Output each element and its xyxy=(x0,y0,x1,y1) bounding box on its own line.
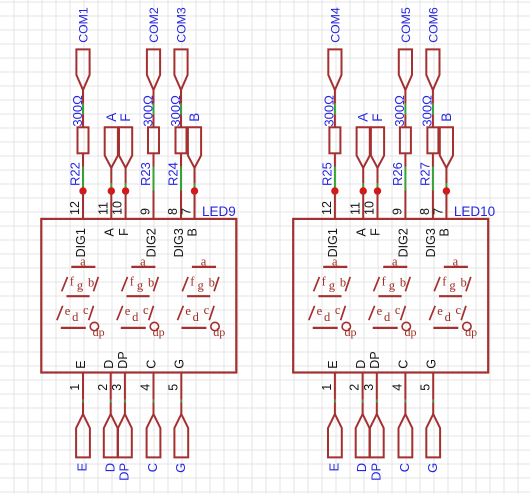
pin of terminal B' xyxy=(445,167,447,183)
display pin G lead xyxy=(180,373,182,400)
off-page terminal F' xyxy=(371,127,384,168)
svg-text:DP: DP xyxy=(368,351,382,368)
terminal label D' xyxy=(354,463,369,472)
terminal label COM4 xyxy=(328,7,342,43)
svg-text:COM4: COM4 xyxy=(328,7,342,43)
svg-text:7: 7 xyxy=(432,208,446,215)
off-page terminal COM3 xyxy=(174,49,187,90)
terminal label DP' xyxy=(368,463,383,481)
wire to terminal E xyxy=(82,400,84,403)
pin name F of LED10 xyxy=(369,228,383,236)
pin number 2 of LED10 xyxy=(348,384,362,391)
refdes label R27 xyxy=(418,162,433,186)
svg-text:R27: R27 xyxy=(418,162,433,186)
pin of terminal COM6 xyxy=(432,89,434,104)
svg-text:DIG1: DIG1 xyxy=(74,228,88,257)
display pin D lead xyxy=(110,373,112,400)
off-page terminal D xyxy=(104,414,118,457)
svg-text:F: F xyxy=(370,114,385,122)
off-page terminal E' xyxy=(328,414,342,457)
pin name DIG2 of LED10 xyxy=(397,228,411,257)
off-page terminal E xyxy=(76,414,90,457)
svg-text:A: A xyxy=(354,228,368,237)
resistor R26 body xyxy=(400,127,411,153)
display pin 7 lead xyxy=(194,191,196,220)
pin number 12 of LED9 xyxy=(68,201,82,215)
terminal label COM2 xyxy=(147,7,161,43)
pin of terminal DP' xyxy=(376,402,378,415)
pin name F of LED9 xyxy=(117,228,131,236)
svg-text:F: F xyxy=(118,114,133,122)
pin of terminal D xyxy=(110,402,112,415)
pin of terminal COM2 xyxy=(153,89,155,104)
off-page terminal C' xyxy=(399,414,413,457)
refdes label R26 xyxy=(390,162,405,186)
svg-text:1: 1 xyxy=(320,384,334,391)
refdes label R24 xyxy=(166,162,181,186)
resistor R22 body xyxy=(78,127,89,153)
svg-text:F: F xyxy=(369,228,383,236)
pin of terminal G' xyxy=(432,402,434,415)
wire R22 to display pin 12 xyxy=(82,167,84,192)
pin number 3 of LED10 xyxy=(362,384,376,391)
svg-text:F: F xyxy=(117,228,131,236)
pin of terminal C' xyxy=(404,402,406,415)
svg-text:D: D xyxy=(354,360,368,369)
pin number 9 of LED9 xyxy=(139,208,153,215)
pin name DP of LED9 xyxy=(116,351,130,368)
wire to terminal C xyxy=(153,400,155,403)
pin name DIG3 of LED9 xyxy=(172,228,186,257)
value label 300&#937; of R24 xyxy=(168,95,183,127)
display pin DP lead xyxy=(376,373,378,400)
terminal label E' xyxy=(327,462,342,471)
junction at display pin 7 xyxy=(443,187,450,194)
svg-text:DIG3: DIG3 xyxy=(424,228,438,257)
pin of terminal G xyxy=(180,402,182,415)
pin 1 of resistor R26 xyxy=(404,114,406,128)
wire COM5 to R26 xyxy=(404,104,406,115)
display pin DP lead xyxy=(124,373,126,400)
off-page terminal COM6 xyxy=(426,49,439,90)
svg-text:COM2: COM2 xyxy=(147,7,161,43)
svg-text:DP: DP xyxy=(116,351,130,368)
wire R27 to display pin 8 xyxy=(432,167,434,191)
pin of terminal D' xyxy=(362,402,364,415)
terminal label A xyxy=(104,113,119,122)
pin number 10 of LED9 xyxy=(111,201,125,215)
terminal label COM1 xyxy=(76,7,90,43)
svg-text:DIG1: DIG1 xyxy=(326,228,340,257)
svg-text:8: 8 xyxy=(418,208,432,215)
svg-text:2: 2 xyxy=(348,384,362,391)
pin 1 of resistor R27 xyxy=(432,114,434,128)
digit 3 segment glyph of LED10 xyxy=(429,254,477,338)
display pin 12 lead xyxy=(82,191,84,220)
svg-text:5: 5 xyxy=(166,384,180,391)
7-segment display LED9 body xyxy=(41,219,236,373)
svg-text:E: E xyxy=(75,462,90,471)
wire to terminal D' xyxy=(362,400,364,403)
off-page terminal B xyxy=(188,127,201,168)
pin 1 of resistor R24 xyxy=(180,114,182,128)
resistor R24 body xyxy=(176,127,187,153)
refdes label R23 xyxy=(138,162,153,186)
wire to terminal G xyxy=(180,400,182,403)
terminal label B' xyxy=(439,113,454,122)
display pin 10 lead xyxy=(377,191,379,220)
wire COM2 to R23 xyxy=(153,104,155,115)
junction at display pin 12 xyxy=(79,187,86,194)
pin number 11 of LED9 xyxy=(96,202,110,215)
svg-text:COM5: COM5 xyxy=(399,7,413,43)
wire to terminal D xyxy=(110,400,112,403)
pin name A of LED9 xyxy=(103,228,117,237)
terminal label COM6 xyxy=(426,7,440,43)
resistor R23 body xyxy=(148,127,159,153)
pin of terminal A xyxy=(110,167,112,183)
off-page terminal G' xyxy=(426,414,440,457)
pin number 4 of LED9 xyxy=(139,384,153,391)
off-page terminal A xyxy=(105,127,118,168)
terminal label COM3 xyxy=(174,7,188,43)
svg-text:D: D xyxy=(354,463,369,472)
pin of terminal C xyxy=(153,402,155,415)
terminal label B xyxy=(187,113,202,122)
wire R26 to display pin 9 xyxy=(404,167,406,191)
pin 2 of resistor R26 xyxy=(404,153,406,167)
pin name DIG2 of LED9 xyxy=(145,228,159,257)
digit 1 segment glyph of LED9 xyxy=(57,254,105,338)
terminal label DP xyxy=(117,463,132,481)
pin number 3 of LED9 xyxy=(110,384,124,391)
wire COM1 to R22 xyxy=(82,104,84,115)
pin name G of LED10 xyxy=(424,359,438,369)
svg-text:300Ω: 300Ω xyxy=(420,95,435,127)
terminal label A' xyxy=(356,113,371,122)
svg-text:11: 11 xyxy=(96,202,110,215)
svg-text:COM3: COM3 xyxy=(174,7,188,43)
terminal label F' xyxy=(370,114,385,122)
svg-text:E: E xyxy=(74,360,88,368)
wire R23 to display pin 9 xyxy=(153,167,155,191)
display pin 9 lead xyxy=(404,191,406,220)
svg-text:300Ω: 300Ω xyxy=(168,95,183,127)
display pin E lead xyxy=(82,373,84,400)
off-page terminal COM1 xyxy=(76,49,89,90)
wire A to display pin 11 xyxy=(110,183,112,191)
pin of terminal E' xyxy=(334,402,336,415)
value label 300&#937; of R26 xyxy=(392,95,407,127)
terminal label D xyxy=(102,463,117,472)
pin of terminal COM4 xyxy=(334,89,336,104)
svg-text:G: G xyxy=(425,463,440,473)
off-page terminal COM2 xyxy=(147,49,160,90)
display pin 11 lead xyxy=(362,191,364,220)
svg-text:R25: R25 xyxy=(320,162,335,186)
svg-text:300Ω: 300Ω xyxy=(70,95,85,127)
pin 2 of resistor R25 xyxy=(334,153,336,167)
svg-text:D: D xyxy=(102,360,116,369)
off-page terminal COM4 xyxy=(328,49,341,90)
pin number 10 of LED10 xyxy=(363,201,377,215)
display pin 9 lead xyxy=(153,191,155,220)
pin name D of LED9 xyxy=(102,360,116,369)
pin name B of LED9 xyxy=(186,228,200,236)
resistor R25 body xyxy=(329,127,340,153)
pin of terminal F' xyxy=(377,167,379,183)
display pin 8 lead xyxy=(180,191,182,220)
pin of terminal E xyxy=(82,402,84,415)
off-page terminal G xyxy=(174,414,188,457)
svg-text:4: 4 xyxy=(139,384,153,391)
svg-text:7: 7 xyxy=(180,208,194,215)
value label 300&#937; of R25 xyxy=(322,95,337,127)
pin name B of LED10 xyxy=(438,228,452,236)
display pin E lead xyxy=(334,373,336,400)
pin number 1 of LED10 xyxy=(320,384,334,391)
svg-text:LED10: LED10 xyxy=(454,204,495,219)
digit 2 segment glyph of LED10 xyxy=(369,254,417,338)
terminal label COM5 xyxy=(399,7,413,43)
svg-text:DIG2: DIG2 xyxy=(145,228,159,257)
off-page terminal C xyxy=(147,414,161,457)
svg-text:C: C xyxy=(397,360,411,369)
pin name G of LED9 xyxy=(173,359,187,369)
terminal label F xyxy=(118,114,133,122)
svg-text:DIG3: DIG3 xyxy=(172,228,186,257)
svg-text:C: C xyxy=(397,463,412,472)
svg-text:C: C xyxy=(145,360,159,369)
svg-text:11: 11 xyxy=(348,202,362,215)
svg-text:R22: R22 xyxy=(68,162,83,186)
svg-text:C: C xyxy=(145,463,160,472)
svg-text:COM1: COM1 xyxy=(76,7,90,43)
pin number 11 of LED10 xyxy=(348,202,362,215)
display pin 11 lead xyxy=(110,191,112,220)
svg-text:E: E xyxy=(327,462,342,471)
off-page terminal DP' xyxy=(370,414,384,457)
pin name DIG3 of LED10 xyxy=(424,228,438,257)
display pin C lead xyxy=(404,373,406,400)
wire A' to display pin 11 xyxy=(362,183,364,191)
resistor R27 body xyxy=(427,127,438,153)
svg-text:G: G xyxy=(173,359,187,369)
wire to terminal E' xyxy=(334,400,336,403)
svg-text:B: B xyxy=(187,113,202,122)
svg-text:G: G xyxy=(173,463,188,473)
wire B to display pin 7 xyxy=(194,183,196,191)
svg-text:10: 10 xyxy=(111,201,125,215)
display pin G lead xyxy=(432,373,434,400)
wire to terminal C' xyxy=(404,400,406,403)
svg-text:R24: R24 xyxy=(166,162,181,186)
pin name DP of LED10 xyxy=(368,351,382,368)
wire F to display pin 10 xyxy=(125,183,127,191)
pin of terminal DP xyxy=(124,402,126,415)
pin 1 of resistor R25 xyxy=(334,114,336,128)
pin 2 of resistor R23 xyxy=(153,153,155,167)
refdes label LED10 xyxy=(454,204,495,219)
refdes label R22 xyxy=(68,162,83,186)
7-segment display LED10 body xyxy=(293,219,488,373)
value label 300&#937; of R22 xyxy=(70,95,85,127)
svg-text:8: 8 xyxy=(166,208,180,215)
off-page terminal D' xyxy=(356,414,370,457)
pin 2 of resistor R22 xyxy=(82,153,84,167)
svg-text:10: 10 xyxy=(363,201,377,215)
junction at display pin 10 xyxy=(374,187,381,194)
pin number 8 of LED10 xyxy=(418,208,432,215)
svg-text:D: D xyxy=(102,463,117,472)
off-page terminal A' xyxy=(357,127,370,168)
pin number 7 of LED10 xyxy=(432,208,446,215)
pin number 1 of LED9 xyxy=(68,384,82,391)
svg-text:DP: DP xyxy=(117,463,132,481)
pin number 9 of LED10 xyxy=(391,208,405,215)
off-page terminal COM5 xyxy=(399,49,412,90)
digit 1 segment glyph of LED10 xyxy=(309,254,357,338)
junction at display pin 11 xyxy=(108,187,115,194)
svg-text:12: 12 xyxy=(320,201,334,215)
junction at display pin 7 xyxy=(191,187,198,194)
pin name D of LED10 xyxy=(354,360,368,369)
svg-text:B: B xyxy=(186,228,200,236)
svg-text:2: 2 xyxy=(96,384,110,391)
svg-text:3: 3 xyxy=(110,384,124,391)
display pin D lead xyxy=(362,373,364,400)
refdes label R25 xyxy=(320,162,335,186)
pin of terminal COM1 xyxy=(82,89,84,104)
display pin 8 lead xyxy=(432,191,434,220)
wire to terminal DP' xyxy=(376,400,378,403)
terminal label C' xyxy=(397,463,412,472)
svg-text:9: 9 xyxy=(391,208,405,215)
svg-text:4: 4 xyxy=(391,384,405,391)
pin name E of LED10 xyxy=(326,360,340,368)
svg-text:R26: R26 xyxy=(390,162,405,186)
pin number 8 of LED9 xyxy=(166,208,180,215)
pin 2 of resistor R24 xyxy=(180,153,182,167)
pin of terminal A' xyxy=(362,167,364,183)
svg-text:300Ω: 300Ω xyxy=(322,95,337,127)
svg-text:300Ω: 300Ω xyxy=(140,95,155,127)
wire B' to display pin 7 xyxy=(445,183,447,191)
display pin 10 lead xyxy=(125,191,127,220)
display pin 7 lead xyxy=(445,191,447,220)
junction at display pin 11 xyxy=(360,187,367,194)
pin number 12 of LED10 xyxy=(320,201,334,215)
pin name DIG1 of LED9 xyxy=(74,228,88,257)
svg-text:B: B xyxy=(439,113,454,122)
pin name DIG1 of LED10 xyxy=(326,228,340,257)
pin name A of LED10 xyxy=(354,228,368,237)
off-page terminal F xyxy=(119,127,132,168)
wire F' to display pin 10 xyxy=(377,183,379,191)
wire R24 to display pin 8 xyxy=(180,167,182,191)
svg-text:1: 1 xyxy=(68,384,82,391)
digit 2 segment glyph of LED9 xyxy=(117,254,165,338)
pin number 2 of LED9 xyxy=(96,384,110,391)
terminal label C xyxy=(145,463,160,472)
value label 300&#937; of R27 xyxy=(420,95,435,127)
svg-text:300Ω: 300Ω xyxy=(392,95,407,127)
wire to terminal G' xyxy=(432,400,434,403)
refdes label LED9 xyxy=(202,204,236,219)
svg-text:A: A xyxy=(356,113,371,122)
pin of terminal COM5 xyxy=(404,89,406,104)
pin number 4 of LED10 xyxy=(391,384,405,391)
pin 1 of resistor R22 xyxy=(82,114,84,128)
terminal label G' xyxy=(425,463,440,473)
svg-text:COM6: COM6 xyxy=(426,7,440,43)
svg-text:A: A xyxy=(104,113,119,122)
svg-text:A: A xyxy=(103,228,117,237)
pin number 5 of LED9 xyxy=(166,384,180,391)
pin name C of LED9 xyxy=(145,360,159,369)
off-page terminal B' xyxy=(440,127,453,168)
pin of terminal F xyxy=(125,167,127,183)
pin 1 of resistor R23 xyxy=(153,114,155,128)
pin 2 of resistor R27 xyxy=(432,153,434,167)
wire COM3 to R24 xyxy=(180,104,182,115)
pin of terminal B xyxy=(194,167,196,183)
svg-text:3: 3 xyxy=(362,384,376,391)
svg-text:G: G xyxy=(424,359,438,369)
pin of terminal COM3 xyxy=(180,89,182,104)
value label 300&#937; of R23 xyxy=(140,95,155,127)
digit 3 segment glyph of LED9 xyxy=(178,254,226,338)
junction at display pin 12 xyxy=(331,187,338,194)
pin name E of LED9 xyxy=(74,360,88,368)
svg-text:9: 9 xyxy=(139,208,153,215)
svg-text:B: B xyxy=(438,228,452,236)
terminal label E xyxy=(75,462,90,471)
wire to terminal DP xyxy=(124,400,126,403)
svg-text:LED9: LED9 xyxy=(202,204,236,219)
display pin C lead xyxy=(153,373,155,400)
pin number 5 of LED10 xyxy=(418,384,432,391)
wire COM4 to R25 xyxy=(334,104,336,115)
svg-text:DIG2: DIG2 xyxy=(397,228,411,257)
svg-text:E: E xyxy=(326,360,340,368)
wire R25 to display pin 12 xyxy=(334,167,336,192)
svg-text:12: 12 xyxy=(68,201,82,215)
display pin 12 lead xyxy=(334,191,336,220)
pin name C of LED10 xyxy=(397,360,411,369)
svg-text:DP: DP xyxy=(368,463,383,481)
wire COM6 to R27 xyxy=(432,104,434,115)
off-page terminal DP xyxy=(118,414,132,457)
svg-text:5: 5 xyxy=(418,384,432,391)
svg-text:R23: R23 xyxy=(138,162,153,186)
pin number 7 of LED9 xyxy=(180,208,194,215)
junction at display pin 10 xyxy=(122,187,129,194)
terminal label G xyxy=(173,463,188,473)
